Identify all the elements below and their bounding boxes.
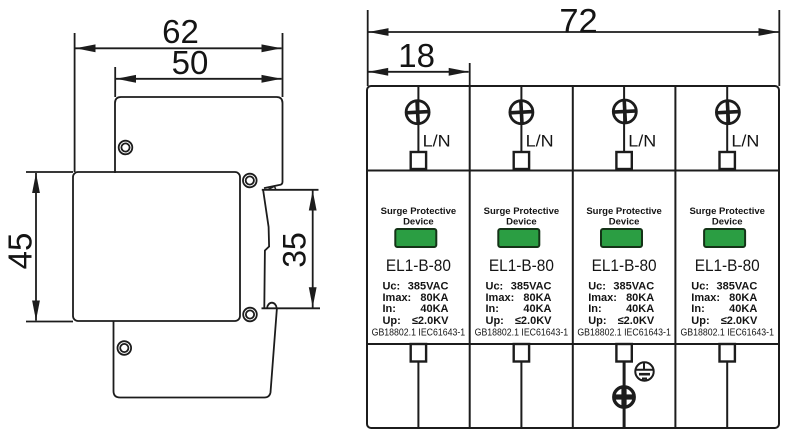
module 3 status window (green)	[601, 229, 642, 247]
svg-text:18: 18	[398, 37, 435, 74]
svg-text:80KA: 80KA	[523, 292, 551, 304]
svg-text:Uc:: Uc:	[486, 281, 504, 293]
svg-text:GB18802.1 IEC61643-1: GB18802.1 IEC61643-1	[680, 328, 774, 339]
module divider 3	[674, 86, 676, 428]
DIN recess wavy vertical edge	[263, 191, 269, 308]
dimension 35	[277, 191, 317, 308]
svg-text:L/N: L/N	[423, 132, 451, 151]
module 2 status window (green)	[498, 229, 539, 247]
module 1 ratings	[383, 281, 450, 327]
svg-text:Imax:: Imax:	[588, 292, 617, 304]
dimension 62	[75, 13, 283, 172]
module 2 top screw	[510, 101, 533, 124]
module 3 top terminal	[616, 152, 631, 169]
svg-text:GB18802.1 IEC61643-1: GB18802.1 IEC61643-1	[372, 328, 466, 339]
svg-text:Up:: Up:	[383, 315, 401, 327]
svg-text:L/N: L/N	[526, 132, 554, 151]
svg-text:Surge Protective: Surge Protective	[689, 206, 765, 217]
screw hole lower-right	[243, 308, 257, 322]
DIN rail clip wedge	[268, 186, 276, 189]
svg-text:In:: In:	[486, 303, 499, 315]
screw hole bottom-left	[118, 341, 132, 355]
svg-text:Uc:: Uc:	[691, 281, 709, 293]
dimension 72	[368, 3, 780, 87]
module 4 top stem wire	[726, 86, 728, 152]
module divider 2	[572, 86, 574, 428]
svg-text:≤2.0KV: ≤2.0KV	[412, 315, 449, 327]
svg-text:80KA: 80KA	[729, 292, 757, 304]
svg-text:Surge Protective: Surge Protective	[484, 206, 560, 217]
svg-text:Device: Device	[403, 217, 434, 228]
module 4 top terminal	[720, 152, 735, 169]
module 4 status window (green)	[704, 229, 745, 247]
svg-text:50: 50	[172, 44, 209, 81]
svg-text:Up:: Up:	[588, 315, 606, 327]
DIN recess step bottom extension line	[262, 307, 321, 309]
svg-text:≤2.0KV: ≤2.0KV	[618, 315, 655, 327]
svg-text:≤2.0KV: ≤2.0KV	[721, 315, 758, 327]
module 1 bottom stem wire	[417, 362, 419, 429]
top strip separator line	[367, 170, 779, 172]
module 3 top screw	[613, 100, 636, 123]
svg-text:Up:: Up:	[691, 315, 709, 327]
module 2 bottom stem wire	[520, 362, 522, 429]
module 1 top terminal	[411, 152, 426, 169]
svg-text:40KA: 40KA	[523, 303, 551, 315]
svg-text:≤2.0KV: ≤2.0KV	[515, 315, 552, 327]
module 2 bottom terminal	[514, 344, 529, 362]
svg-text:L/N: L/N	[731, 132, 759, 151]
svg-text:80KA: 80KA	[626, 292, 654, 304]
svg-text:Surge Protective: Surge Protective	[381, 206, 457, 217]
dimension 18	[368, 37, 470, 86]
svg-text:EL1-B-80: EL1-B-80	[592, 257, 657, 275]
dimension 50	[115, 44, 281, 97]
svg-text:Imax:: Imax:	[691, 292, 720, 304]
module 3 earth terminal symbol	[635, 362, 653, 380]
main body (middle housing)	[73, 172, 240, 321]
svg-text:Device: Device	[609, 217, 640, 228]
svg-text:EL1-B-80: EL1-B-80	[695, 257, 760, 275]
module 1 bottom terminal	[411, 344, 426, 362]
dimension 45	[2, 172, 74, 322]
svg-text:Imax:: Imax:	[486, 292, 515, 304]
svg-text:40KA: 40KA	[729, 303, 757, 315]
module 1 top screw	[406, 101, 429, 124]
module 4 ratings	[691, 281, 758, 327]
svg-text:35: 35	[277, 232, 313, 268]
svg-text:Uc:: Uc:	[383, 281, 401, 293]
svg-text:385VAC: 385VAC	[511, 281, 552, 293]
svg-text:In:: In:	[383, 303, 396, 315]
module 1 status window (green)	[395, 229, 436, 247]
svg-text:40KA: 40KA	[626, 303, 654, 315]
svg-text:Imax:: Imax:	[383, 292, 412, 304]
SPD outer body	[367, 86, 779, 428]
module 3 top stem wire	[623, 86, 625, 152]
module 1 top stem wire	[417, 86, 419, 152]
svg-text:45: 45	[2, 233, 39, 270]
svg-text:80KA: 80KA	[420, 292, 448, 304]
svg-text:Device: Device	[506, 217, 537, 228]
module 4 top screw	[716, 101, 739, 124]
svg-text:L/N: L/N	[628, 132, 656, 151]
module 4 bottom stem wire	[726, 362, 728, 429]
svg-text:385VAC: 385VAC	[613, 281, 654, 293]
bottom strip separator line	[367, 343, 779, 345]
module 2 ratings	[486, 281, 553, 327]
svg-text:Surge Protective: Surge Protective	[586, 206, 662, 217]
svg-text:GB18802.1 IEC61643-1: GB18802.1 IEC61643-1	[577, 328, 671, 339]
svg-text:In:: In:	[691, 303, 704, 315]
svg-text:EL1-B-80: EL1-B-80	[489, 257, 554, 275]
svg-text:GB18802.1 IEC61643-1: GB18802.1 IEC61643-1	[475, 328, 569, 339]
module 3 bottom terminal	[616, 344, 631, 362]
DIN recess step top extension line	[262, 189, 319, 191]
svg-text:385VAC: 385VAC	[408, 281, 449, 293]
DIN clip bottom hook	[267, 303, 277, 308]
top body (upper housing, 50 wide)	[115, 97, 283, 188]
svg-text:40KA: 40KA	[420, 303, 448, 315]
module 3 ratings	[588, 281, 655, 327]
svg-text:In:: In:	[588, 303, 601, 315]
screw hole top-left	[119, 141, 133, 155]
module 3 bottom stem wire	[623, 362, 626, 429]
svg-text:Up:: Up:	[486, 315, 504, 327]
svg-text:385VAC: 385VAC	[717, 281, 758, 293]
module 2 top terminal	[514, 152, 529, 169]
screw hole upper-right	[243, 174, 257, 188]
module 4 bottom terminal	[720, 344, 735, 362]
svg-text:Uc:: Uc:	[588, 281, 606, 293]
svg-text:72: 72	[559, 3, 597, 41]
module 3 earth screw	[613, 386, 635, 408]
lower body (bottom housing)	[114, 308, 277, 397]
svg-text:Device: Device	[712, 217, 743, 228]
module 2 top stem wire	[520, 86, 522, 152]
module divider 1	[469, 86, 471, 428]
svg-text:EL1-B-80: EL1-B-80	[386, 257, 451, 275]
